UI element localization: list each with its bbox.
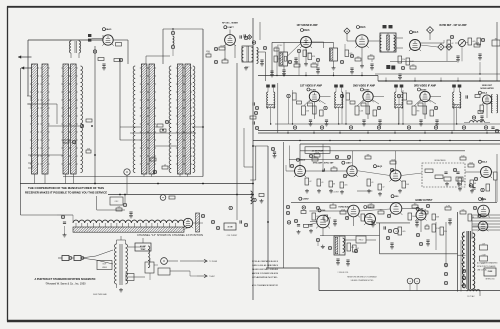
svg-text:6AU6: 6AU6	[300, 159, 306, 162]
svg-text:30 1W: 30 1W	[228, 227, 233, 229]
svg-text:68: 68	[474, 183, 476, 185]
svg-text:390: 390	[414, 203, 417, 205]
svg-text:12SN7: 12SN7	[302, 199, 309, 201]
svg-text:.02: .02	[309, 181, 311, 183]
svg-text:3RD VIDEO IF AMP: 3RD VIDEO IF AMP	[414, 85, 436, 88]
svg-text:6AL5: 6AL5	[413, 31, 419, 34]
svg-text:TRAP: TRAP	[141, 248, 147, 251]
svg-text:NOISE LIMITER: NOISE LIMITER	[480, 88, 494, 90]
svg-text:VIDEO DET: VIDEO DET	[482, 85, 493, 87]
svg-text:.01: .01	[321, 182, 323, 184]
svg-text:390: 390	[314, 156, 317, 158]
svg-text:390: 390	[365, 217, 368, 219]
svg-text:UNLESS OTHERWISE NOTED: UNLESS OTHERWISE NOTED	[351, 280, 374, 282]
svg-text:390: 390	[333, 166, 336, 168]
svg-text:470: 470	[426, 224, 429, 226]
svg-text:6AQ5: 6AQ5	[377, 165, 383, 168]
svg-text:300Ω TWIN LEAD: 300Ω TWIN LEAD	[93, 293, 108, 296]
svg-text:TO TUNER: TO TUNER	[209, 261, 218, 263]
svg-text:© FIELD COIL: © FIELD COIL	[338, 271, 349, 274]
svg-text:VALUES LESS THAN 1 IN MF AND: VALUES LESS THAN 1 IN MF AND	[252, 268, 278, 271]
svg-text:.01: .01	[164, 164, 166, 166]
svg-text:COIL TURRET: COIL TURRET	[227, 235, 238, 237]
svg-text:SYNC AMP - SYNC SEP: SYNC AMP - SYNC SEP	[313, 162, 334, 165]
svg-text:.02: .02	[332, 203, 334, 205]
svg-text:390: 390	[462, 181, 465, 183]
svg-text:1ST SOUND IF AMP: 1ST SOUND IF AMP	[297, 23, 318, 27]
svg-text:OTHERWISE NOTED.: OTHERWISE NOTED.	[252, 277, 279, 279]
svg-text:.02: .02	[382, 187, 384, 189]
svg-text:390: 390	[444, 231, 447, 233]
svg-text:A 5% TOLERANCE RESISTOR: A 5% TOLERANCE RESISTOR	[252, 284, 278, 287]
svg-text:THE COOPERATION OF THE MANUFAC: THE COOPERATION OF THE MANUFACTURER OF T…	[28, 186, 104, 190]
svg-text:220: 220	[357, 56, 360, 58]
svg-text:.01: .01	[371, 182, 373, 184]
svg-text:6AL5: 6AL5	[482, 92, 488, 95]
svg-text:390: 390	[417, 110, 420, 112]
svg-text:6.3: 6.3	[247, 67, 249, 69]
svg-text:.005: .005	[349, 53, 352, 55]
svg-text:.005: .005	[344, 185, 347, 187]
svg-text:220: 220	[412, 64, 415, 66]
svg-text:6AL5: 6AL5	[482, 161, 488, 164]
svg-text:.02: .02	[451, 43, 453, 45]
svg-text:A PHOTOFACT STANDARD NOTATION: A PHOTOFACT STANDARD NOTATION SCHEMATIC	[35, 277, 96, 281]
svg-text:12AU7: 12AU7	[367, 206, 374, 209]
svg-text:2.2M: 2.2M	[482, 254, 486, 256]
svg-text:2ND VIDEO IF AMP: 2ND VIDEO IF AMP	[353, 85, 375, 88]
svg-text:CHANNEL "13" SHOWN IN CHANNEL: CHANNEL "13" SHOWN IN CHANNEL 13 POSITIO…	[137, 234, 203, 237]
svg-text:470: 470	[152, 156, 155, 158]
svg-text:117V AC: 117V AC	[467, 295, 475, 298]
svg-text:12AT7: 12AT7	[345, 162, 352, 165]
svg-text:©Howard W. Sams & Co., Inc. 19: ©Howard W. Sams & Co., Inc. 1950	[46, 282, 87, 286]
svg-text:6AU6: 6AU6	[360, 26, 367, 29]
svg-text:6AU6: 6AU6	[304, 29, 311, 32]
svg-text:FINE: FINE	[206, 51, 210, 53]
svg-text:12AT7: 12AT7	[227, 26, 234, 29]
svg-text:68: 68	[333, 184, 335, 186]
svg-text:OHMS. K=1000. ALL CAPACITANCE: OHMS. K=1000. ALL CAPACITANCE	[252, 264, 278, 267]
svg-text:1ST VIDEO IF AMP: 1ST VIDEO IF AMP	[300, 85, 322, 88]
svg-text:6AG5: 6AG5	[106, 28, 112, 31]
svg-text:INTERLOCK: INTERLOCK	[485, 279, 495, 281]
svg-text:390: 390	[278, 59, 281, 61]
svg-text:ABOVE 1 IN MMF UNLESS: ABOVE 1 IN MMF UNLESS	[252, 272, 279, 275]
svg-text:4.5 MC: 4.5 MC	[140, 245, 147, 248]
svg-text:RF OSC - MIXER: RF OSC - MIXER	[222, 23, 238, 25]
svg-text:NOTES: ALL RESISTANCE VALUES I: NOTES: ALL RESISTANCE VALUES IN	[252, 260, 278, 263]
svg-text:220: 220	[402, 59, 405, 61]
svg-text:2.2M: 2.2M	[275, 46, 279, 48]
svg-text:BRIGHTNESS: BRIGHTNESS	[435, 160, 447, 162]
svg-text:RECEIVER MAKES IT POSSIBLE TO: RECEIVER MAKES IT POSSIBLE TO BRING YOU …	[25, 190, 107, 194]
svg-text:HORIZ OUTPUT: HORIZ OUTPUT	[416, 200, 434, 202]
svg-text:.005: .005	[369, 54, 372, 56]
svg-text:USED: USED	[102, 267, 108, 269]
svg-text:2.2M: 2.2M	[446, 205, 450, 207]
svg-text:RATIO DET - 1ST AF AMP: RATIO DET - 1ST AF AMP	[440, 23, 467, 27]
svg-text:.005: .005	[402, 231, 405, 233]
svg-text:4.5 CONT: 4.5 CONT	[331, 191, 339, 193]
